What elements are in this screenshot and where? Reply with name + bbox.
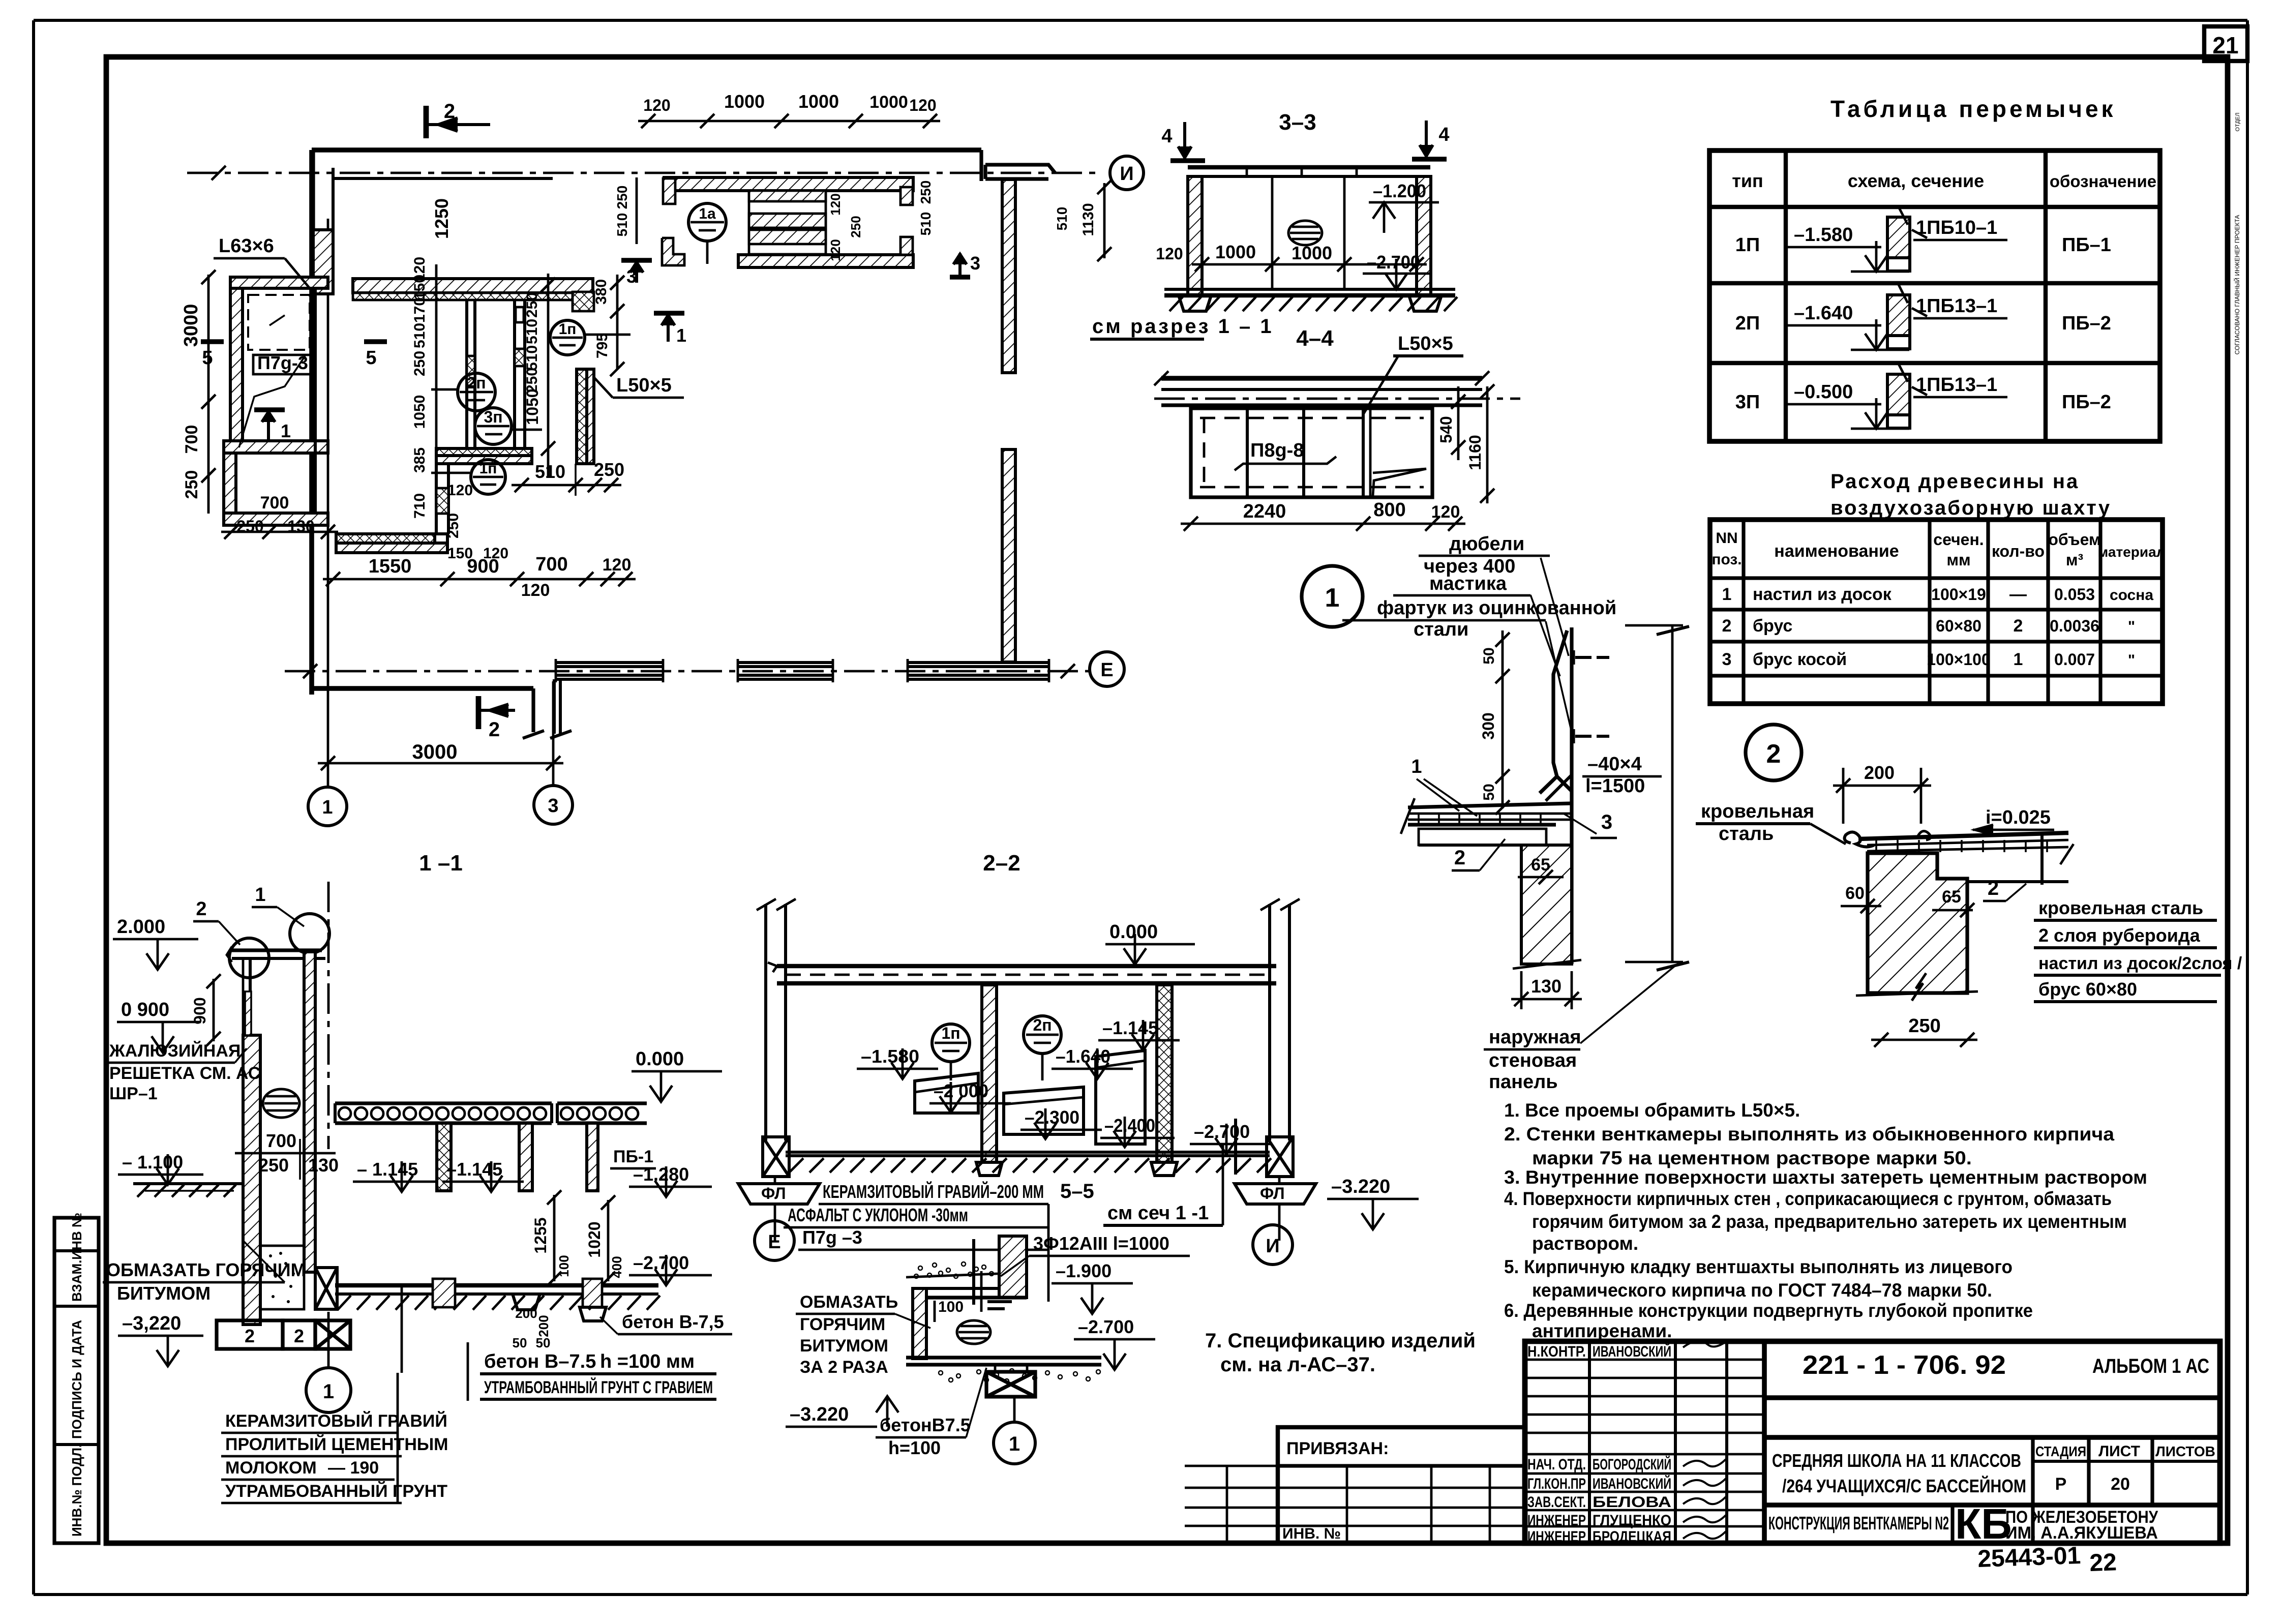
section 4-4 right dims 540 1160 [1457, 386, 1460, 460]
svg-text:фартук из оцинкованной: фартук из оцинкованной [1377, 597, 1616, 619]
svg-text:1: 1 [1009, 1433, 1020, 1455]
node 1 roof deck [1408, 803, 1572, 807]
svg-text:Е: Е [768, 1231, 780, 1253]
s11 node circle 1 [306, 1368, 351, 1412]
plan: wall below chamber [435, 464, 438, 534]
svg-text:2: 2 [2014, 616, 2023, 636]
section 3-3 stone blob [1288, 221, 1322, 245]
svg-text:3. Внутренние поверхности ш: 3. Внутренние поверхности шахты затереть… [1504, 1167, 2147, 1188]
s11 shaft left wall hatched [243, 1035, 260, 1325]
svg-text:3Ф12АIII l=1000: 3Ф12АIII l=1000 [1033, 1233, 1169, 1254]
svg-text:120: 120 [828, 193, 843, 215]
svg-text:2 слоя рубероида: 2 слоя рубероида [2038, 925, 2201, 946]
svg-text:120: 120 [447, 482, 473, 499]
svg-text:–1.145: –1.145 [446, 1159, 502, 1180]
svg-text:ШР–1: ШР–1 [109, 1084, 158, 1103]
s11 node circles [229, 938, 269, 978]
svg-text:1: 1 [323, 1380, 334, 1403]
svg-text:3: 3 [1722, 650, 1732, 669]
node 1 wall break bottom [1513, 960, 1581, 969]
svg-text:2: 2 [1766, 739, 1781, 769]
node 1 leader lines [1541, 558, 1569, 656]
section 3-3 right wall [1417, 176, 1431, 295]
plan: circle 1P upper [550, 320, 585, 355]
svg-text:АЛЬБОМ 1 АС: АЛЬБОМ 1 АС [2092, 1355, 2209, 1377]
svg-text:3: 3 [626, 266, 637, 287]
s22 right column [1268, 904, 1271, 1140]
svg-text:170: 170 [411, 297, 428, 323]
svg-text:КЕРАМЗИТОВЫЙ ГРАВИЙ–200 ММ: КЕРАМЗИТОВЫЙ ГРАВИЙ–200 ММ [823, 1181, 1044, 1202]
svg-text:22: 22 [2089, 1549, 2117, 1577]
svg-text:2п: 2п [1033, 1016, 1052, 1034]
svg-text:ЖАЛЮЗИЙНАЯ: ЖАЛЮЗИЙНАЯ [109, 1041, 241, 1061]
svg-text:120: 120 [909, 96, 936, 114]
s11 basement floor [335, 1283, 658, 1287]
plan: dim row 1550 900 700 120 [323, 578, 636, 581]
svg-text:1050: 1050 [523, 388, 542, 425]
svg-text:И: И [1266, 1236, 1279, 1257]
s22 pit foundation crossbox [986, 1372, 1035, 1397]
node 2 S-hook [1845, 832, 1874, 847]
svg-text:– 1.100: – 1.100 [122, 1152, 183, 1172]
plan: circle 1P lower [471, 460, 505, 494]
s11 footing blocks 2 2 [217, 1320, 283, 1349]
svg-text:300: 300 [1479, 712, 1497, 739]
svg-text:2: 2 [1454, 847, 1465, 869]
svg-text:мм: мм [1946, 551, 1970, 569]
svg-text:2: 2 [444, 100, 455, 123]
node 1 deck break left [1401, 798, 1415, 834]
svg-text:ПРОЛИТЫЙ ЦЕМЕНТНЫМ: ПРОЛИТЫЙ ЦЕМЕНТНЫМ [225, 1434, 448, 1454]
svg-text:–1.200: –1.200 [1373, 181, 1426, 201]
svg-text:3–3: 3–3 [1279, 110, 1316, 135]
svg-text:221 - 1 - 706. 92: 221 - 1 - 706. 92 [1803, 1350, 2006, 1380]
svg-text:120: 120 [1431, 502, 1460, 522]
svg-text:3п: 3п [484, 408, 502, 426]
plan: central vent chamber top hatched band [353, 279, 593, 293]
svg-text:1250: 1250 [431, 198, 452, 239]
svg-text:ИВАНОВСКИЙ: ИВАНОВСКИЙ [1593, 1475, 1671, 1492]
plan: section mark 5 right [364, 339, 387, 344]
svg-text:ПБ–2: ПБ–2 [2062, 392, 2111, 413]
title block privyazan table [1278, 1427, 1525, 1543]
svg-text:1: 1 [255, 884, 265, 906]
svg-text:20: 20 [2111, 1475, 2130, 1494]
plan: building outline bottom [312, 686, 533, 691]
s22 circle 1P [932, 1024, 970, 1062]
svg-text:–2.700: –2.700 [1194, 1121, 1250, 1142]
svg-text:130: 130 [287, 517, 314, 535]
svg-text:25443-01: 25443-01 [1977, 1542, 2082, 1573]
svg-text:130: 130 [1531, 976, 1562, 997]
svg-text:брус косой: брус косой [1753, 650, 1847, 669]
svg-text:ПОДПИСЬ И ДАТА: ПОДПИСЬ И ДАТА [69, 1320, 84, 1439]
svg-text:2240: 2240 [1243, 501, 1286, 522]
s22 lintel sketch 1 [915, 1073, 978, 1113]
svg-text:3П: 3П [1735, 392, 1760, 413]
svg-text:": " [2128, 618, 2135, 635]
s11 vert dims 1255 1020 [553, 1195, 556, 1281]
svg-text:4: 4 [1161, 126, 1172, 147]
svg-text:ЗАВ.СЕКТ.: ЗАВ.СЕКТ. [1527, 1494, 1586, 1511]
plan: chamber right top L piece [573, 292, 594, 311]
section 3-3 footings [1179, 295, 1211, 311]
s22 pit gravel dots [918, 1266, 922, 1270]
svg-text:2: 2 [196, 898, 206, 920]
plan: top wall inner face [333, 177, 553, 180]
section 3-3 ground hatch [1169, 297, 1183, 311]
svg-text:бетон В–7.5: бетон В–7.5 [484, 1351, 596, 1372]
svg-text:1255: 1255 [531, 1217, 550, 1253]
plan: wall piece at axis I right [985, 165, 1055, 173]
svg-text:1ПБ10–1: 1ПБ10–1 [1916, 217, 1997, 238]
plan: top-right chamber left upper L [663, 178, 675, 204]
svg-text:795: 795 [594, 333, 611, 358]
svg-text:3000: 3000 [181, 304, 202, 347]
plan: chamber mid inner wall [513, 300, 516, 464]
node 2 circle [1746, 725, 1801, 780]
node 1 dim 130 [1511, 998, 1582, 1001]
svg-text:1550: 1550 [369, 556, 412, 577]
svg-text:4: 4 [1438, 124, 1449, 145]
svg-text:0.007: 0.007 [2054, 650, 2095, 669]
svg-text:": " [2128, 652, 2135, 669]
svg-text:400: 400 [609, 1256, 624, 1278]
plan: section mark 1 chamber [654, 311, 684, 316]
svg-text:65: 65 [1531, 855, 1550, 875]
svg-text:1ПБ13–1: 1ПБ13–1 [1916, 374, 1997, 396]
svg-text:0 900: 0 900 [121, 999, 169, 1020]
svg-text:–2.700: –2.700 [633, 1252, 689, 1273]
svg-text:ОБМАЗАТЬ ГОРЯЧИМ: ОБМАЗАТЬ ГОРЯЧИМ [106, 1259, 306, 1280]
svg-text:ИНВ. №: ИНВ. № [1282, 1525, 1341, 1542]
svg-text:510: 510 [1054, 207, 1070, 231]
svg-text:250: 250 [411, 351, 428, 376]
svg-text:130: 130 [308, 1155, 339, 1176]
svg-text:–1.900: –1.900 [1056, 1260, 1112, 1281]
plan: dim 510 250 below chamber [512, 484, 621, 487]
svg-text:65: 65 [1942, 887, 1961, 907]
s11 dim 900 [213, 979, 215, 1041]
plan: circle 3P [475, 408, 512, 444]
node 1 circle [1302, 566, 1363, 627]
svg-text:l=1500: l=1500 [1585, 775, 1645, 797]
svg-text:h =100 мм: h =100 мм [600, 1351, 695, 1372]
s22 left column [764, 904, 767, 1140]
svg-text:1000: 1000 [1215, 242, 1256, 262]
svg-text:настил из досок: настил из досок [1753, 585, 1892, 604]
plan: top-right vent chamber top band (hatched) [664, 177, 913, 191]
svg-text:тип: тип [1732, 170, 1763, 191]
svg-text:0.000: 0.000 [636, 1048, 684, 1070]
svg-text:5–5: 5–5 [1060, 1180, 1094, 1202]
s22 circle E [755, 1221, 794, 1260]
plan: dim 3000 bottom [318, 762, 563, 765]
s11 stone blob [263, 1089, 299, 1118]
svg-text:–1.580: –1.580 [861, 1046, 919, 1067]
s22 pit floor [906, 1356, 1101, 1359]
svg-text:–3.220: –3.220 [790, 1404, 849, 1425]
svg-text:540: 540 [1437, 416, 1455, 443]
svg-text:1: 1 [281, 420, 291, 441]
section 3-3 interior lines [1271, 176, 1274, 289]
plan: top-right chamber bottom band [738, 255, 913, 267]
svg-text:200: 200 [1864, 762, 1895, 783]
svg-text:1п: 1п [941, 1024, 960, 1042]
svg-text:стеновая: стеновая [1489, 1050, 1577, 1071]
svg-text:5: 5 [366, 347, 376, 369]
s11 shaft right wall [304, 952, 315, 1272]
svg-text:КБ: КБ [1955, 1500, 2012, 1548]
section 3-3 left wall [1188, 176, 1202, 295]
svg-text:60×80: 60×80 [1936, 617, 1981, 635]
s22 pit ground dots right [939, 1371, 943, 1375]
s22 ground hatch [789, 1158, 803, 1172]
title block main box [1525, 1341, 2220, 1543]
svg-text:керамического кирпича по ГО: керамического кирпича по ГОСТ 7484–78 ма… [1532, 1280, 1992, 1301]
svg-text:380: 380 [593, 279, 610, 305]
svg-text:БРОДЕЦКАЯ: БРОДЕЦКАЯ [1593, 1528, 1671, 1545]
svg-text:см разрез 1 – 1: см разрез 1 – 1 [1092, 315, 1274, 338]
svg-text:–3.220: –3.220 [1331, 1176, 1390, 1197]
plan: axis 1 (vertical) [327, 219, 329, 787]
s11 floor slab with cores [335, 1101, 552, 1105]
svg-text:200: 200 [515, 1306, 537, 1321]
svg-text:250: 250 [236, 517, 263, 535]
svg-text:ИНЖЕНЕР: ИНЖЕНЕР [1527, 1528, 1586, 1545]
svg-text:3000: 3000 [412, 741, 458, 763]
sheet number box 21 [2204, 26, 2247, 61]
plan: left room (P7g-3) outer walls [230, 277, 328, 288]
svg-text:ПБ–1: ПБ–1 [2062, 234, 2111, 256]
plan: chamber bottom band [436, 448, 532, 456]
svg-text:— 190: — 190 [328, 1458, 379, 1478]
plan: building outline top [312, 147, 981, 153]
svg-text:1000: 1000 [1292, 243, 1332, 263]
svg-text:5. Кирпичную кладку вентшах: 5. Кирпичную кладку вентшахты выполнять … [1504, 1256, 2013, 1277]
svg-text:брус 60×80: брус 60×80 [2038, 979, 2137, 1000]
plan: axis 1 circle [308, 787, 347, 826]
svg-text:сталь: сталь [1719, 823, 1774, 845]
plan: louver box verticals [748, 191, 750, 265]
plan: circle 1a [688, 203, 726, 241]
svg-text:1: 1 [1722, 585, 1732, 604]
svg-text:Е: Е [1100, 659, 1113, 681]
node 2 hooks at seam [1917, 831, 1931, 840]
plan: left room dashed opening [248, 295, 310, 350]
svg-text:антипиренами.: антипиренами. [1532, 1320, 1672, 1341]
svg-text:см сеч 1 -1: см сеч 1 -1 [1107, 1202, 1209, 1224]
svg-text:панель: панель [1489, 1071, 1558, 1093]
svg-text:7. Спецификацию изделий: 7. Спецификацию изделий [1205, 1330, 1476, 1352]
s11 under-slab walls [437, 1123, 451, 1191]
svg-text:П7g –3: П7g –3 [802, 1227, 862, 1248]
svg-text:1050: 1050 [411, 395, 428, 429]
svg-text:120: 120 [1156, 245, 1183, 263]
svg-text:КЕРАМЗИТОВЫЙ ГРАВИЙ: КЕРАМЗИТОВЫЙ ГРАВИЙ [225, 1411, 447, 1431]
svg-text:БЕЛОВА: БЕЛОВА [1593, 1494, 1671, 1511]
svg-text:–3,220: –3,220 [122, 1313, 181, 1334]
svg-text:схема, сечение: схема, сечение [1848, 170, 1984, 191]
s22 stone blob pit [957, 1320, 990, 1344]
svg-text:3: 3 [970, 253, 980, 274]
plan: section mark 3 chamber [621, 258, 652, 263]
svg-text:5: 5 [202, 347, 213, 369]
svg-text:60: 60 [1845, 884, 1865, 903]
svg-text:2: 2 [1722, 616, 1732, 636]
svg-text:настил из досок/2слоя /: настил из досок/2слоя / [2038, 954, 2242, 973]
left stamp column [54, 1218, 99, 1543]
svg-text:СТАДИЯ: СТАДИЯ [2035, 1443, 2086, 1459]
svg-text:510: 510 [411, 323, 428, 348]
svg-text:ГЛУЩЕНКО: ГЛУЩЕНКО [1593, 1512, 1671, 1529]
s11 shaft interior concrete dots [260, 1246, 304, 1309]
svg-text:ПРИВЯЗАН:: ПРИВЯЗАН: [1286, 1439, 1389, 1458]
plan: building outline left [309, 150, 314, 695]
svg-text:250: 250 [614, 186, 630, 209]
svg-text:250: 250 [258, 1155, 289, 1176]
svg-text:100×100: 100×100 [1927, 650, 1990, 669]
svg-text:2.000: 2.000 [117, 916, 165, 938]
plan: circle 2P [458, 373, 495, 411]
svg-text:Расход древесины на: Расход древесины на [1830, 470, 2079, 493]
plan: top-right chamber right L pieces [900, 187, 913, 205]
svg-text:поз.: поз. [1711, 551, 1741, 568]
svg-text:250: 250 [182, 470, 201, 499]
s22 lintel sketch 2 [1004, 1087, 1084, 1134]
svg-text:2. Стенки венткамеры выполн: 2. Стенки венткамеры выполнять из обыкно… [1504, 1124, 2114, 1145]
plan: axis E (dash-dot) [285, 670, 1090, 673]
svg-text:510: 510 [535, 461, 565, 482]
svg-text:50: 50 [1481, 647, 1497, 664]
svg-text:И: И [1120, 163, 1133, 185]
plan: chamber left inner wall [465, 300, 468, 448]
svg-text:2п: 2п [467, 374, 486, 392]
plan: lower-left chamber band [336, 534, 435, 543]
svg-text:4–4: 4–4 [1296, 326, 1334, 351]
svg-text:ИМ. А.А.ЯКУШЕВА: ИМ. А.А.ЯКУШЕВА [2005, 1523, 2158, 1543]
svg-text:П8g-8: П8g-8 [1250, 440, 1304, 461]
svg-text:1000: 1000 [798, 91, 839, 112]
svg-text:РЕШЕТКА СМ. АС: РЕШЕТКА СМ. АС [109, 1064, 260, 1083]
svg-text:ИНЖЕНЕР: ИНЖЕНЕР [1527, 1512, 1586, 1529]
s22 right footing FL [1235, 1184, 1316, 1204]
svg-text:510: 510 [524, 319, 541, 344]
svg-text:2П: 2П [1735, 313, 1760, 334]
node 2 right deck edge [2040, 833, 2044, 885]
svg-text:—: — [2009, 585, 2027, 604]
svg-text:1: 1 [2014, 650, 2023, 669]
svg-text:Р: Р [2055, 1475, 2067, 1494]
svg-text:710: 710 [411, 493, 428, 519]
plan: right wall segment lower (hatched) [1002, 449, 1015, 662]
svg-text:1: 1 [322, 797, 333, 818]
svg-text:БИТУМОМ: БИТУМОМ [800, 1336, 888, 1356]
section 3-3 floor [1164, 288, 1455, 291]
svg-text:700: 700 [260, 493, 289, 513]
title block signature table [1588, 1341, 1591, 1543]
svg-text:900: 900 [191, 997, 209, 1024]
svg-text:120: 120 [828, 239, 843, 261]
svg-text:ОБМАЗАТЬ: ОБМАЗАТЬ [800, 1292, 898, 1312]
svg-text:510: 510 [524, 345, 541, 371]
s22 circle I [1253, 1225, 1293, 1265]
plan: section mark 2 top [424, 106, 429, 138]
svg-text:КОНСТРУКЦИЯ ВЕНТКАМЕРЫ N2: КОНСТРУКЦИЯ ВЕНТКАМЕРЫ N2 [1768, 1513, 1949, 1533]
svg-text:–2.400: –2.400 [1104, 1115, 1155, 1136]
section 3-3 mark 4 right [1412, 157, 1447, 162]
svg-text:3: 3 [548, 795, 558, 817]
plan: section mark 1 bottom-left [254, 407, 285, 412]
svg-text:сосна: сосна [2110, 587, 2153, 604]
svg-text:ЗА 2 РАЗА: ЗА 2 РАЗА [800, 1358, 888, 1377]
title block bottom row [1764, 1502, 2220, 1508]
svg-text:250: 250 [918, 181, 934, 204]
svg-text:0.000: 0.000 [1109, 921, 1158, 943]
svg-text:h=100: h=100 [888, 1437, 941, 1458]
s22 left footing FL [738, 1184, 820, 1204]
s22 pit detail [999, 1236, 1027, 1298]
svg-text:800: 800 [1373, 499, 1405, 521]
svg-text:–2.700: –2.700 [1367, 252, 1420, 273]
svg-text:3: 3 [1601, 811, 1612, 833]
plan: central chamber crosshatch sub-band [353, 293, 585, 300]
plan: outline duct tab [531, 688, 535, 732]
svg-text:– 1.145: – 1.145 [357, 1159, 418, 1180]
section 4-4 top slab [1161, 376, 1482, 381]
plan: axis I circle [1110, 156, 1144, 190]
svg-text:–2.300: –2.300 [1025, 1107, 1079, 1128]
svg-text:385: 385 [411, 447, 428, 473]
svg-text:материал: материал [2098, 544, 2166, 560]
svg-text:250: 250 [848, 216, 863, 237]
svg-text:50: 50 [1481, 784, 1497, 800]
svg-text:1000: 1000 [724, 91, 765, 112]
node 1 panel below [1419, 829, 1546, 845]
svg-text:120: 120 [483, 545, 508, 562]
svg-text:ГЛ.КОН.ПР: ГЛ.КОН.ПР [1527, 1476, 1586, 1492]
svg-text:510: 510 [614, 213, 630, 237]
s22 lintel sketch 3 [1096, 1050, 1145, 1144]
svg-text:0.053: 0.053 [2054, 585, 2095, 604]
node 2 block bottom break [1856, 991, 1978, 996]
svg-text:200: 200 [536, 1315, 551, 1337]
svg-text:–1.280: –1.280 [633, 1164, 689, 1185]
s11 shaft grille part [249, 958, 252, 1035]
svg-text:см. на л-АС–37.: см. на л-АС–37. [1220, 1354, 1375, 1376]
svg-text:4. Поверхности кирпичных ст: 4. Поверхности кирпичных стен , соприкас… [1504, 1188, 2112, 1209]
svg-text:ФЛ: ФЛ [1260, 1184, 1285, 1202]
svg-text:–2.700: –2.700 [1078, 1316, 1134, 1337]
plan: axis I (dash-dot) [187, 172, 1096, 174]
svg-text:брус: брус [1753, 616, 1792, 636]
svg-text:Таблица перемычек: Таблица перемычек [1830, 96, 2116, 122]
wood table grid [1710, 520, 2163, 704]
svg-text:0.0036: 0.0036 [2050, 617, 2099, 635]
svg-text:250: 250 [524, 292, 541, 318]
svg-text:–1.580: –1.580 [1794, 224, 1853, 246]
svg-text:кровельная сталь: кровельная сталь [2038, 897, 2203, 918]
svg-text:2: 2 [1988, 877, 1999, 899]
svg-text:1000: 1000 [869, 93, 908, 112]
plan: axis 3 (vertical) [552, 681, 555, 786]
svg-text:21: 21 [2212, 32, 2238, 58]
svg-text:ГОРЯЧИМ: ГОРЯЧИМ [800, 1315, 885, 1334]
node 2 dim 200 [1833, 785, 1931, 787]
svg-text:250: 250 [1908, 1015, 1940, 1037]
svg-text:сечен.: сечен. [1933, 530, 1984, 549]
svg-text:1п: 1п [479, 460, 497, 477]
